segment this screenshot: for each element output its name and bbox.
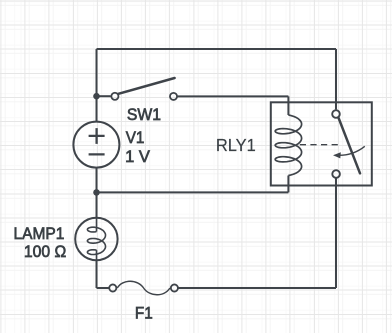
wire: relay contact top lead from top rail	[335, 49, 337, 109]
svg-text:V1: V1	[126, 129, 145, 147]
label V1 value 1 V	[125, 148, 150, 166]
wire: node B down to LAMP1 top	[96, 192, 98, 218]
relay RLY1 box	[271, 102, 372, 185]
wire: relay coil top lead (down into box)	[287, 96, 289, 115]
relay RLY1 contact terminals and lever	[332, 110, 360, 178]
wire: LAMP1 bottom lead to bottom rail	[96, 260, 98, 288]
wire: left rail vertical from top wire to node A	[96, 49, 98, 96]
wire: V1 bottom lead to node B	[96, 168, 98, 193]
svg-text:LAMP1: LAMP1	[14, 225, 65, 243]
wire: bottom rail left segment to fuse	[97, 287, 109, 289]
label LAMP1 value 100 ohm	[24, 243, 66, 261]
wire: relay coil bottom lead up into box	[287, 176, 289, 193]
label LAMP1	[14, 225, 65, 243]
wire: SW1 right terminal to relay coil top	[177, 95, 288, 97]
svg-text:F1: F1	[135, 304, 153, 322]
wire: node A down to V1 top	[96, 96, 98, 122]
relay RLY1 actuation dashed link	[300, 144, 341, 146]
label V1	[126, 129, 145, 147]
label F1	[135, 304, 153, 322]
label SW1	[127, 106, 161, 124]
wire: node A to SW1 left terminal	[97, 95, 111, 97]
label RLY1	[216, 135, 256, 155]
wire: top horizontal rail	[97, 48, 337, 50]
wire: bottom rail right segment from fuse to relay contact	[178, 287, 336, 289]
fuse F1	[109, 281, 178, 295]
voltage source V1	[73, 122, 119, 168]
svg-text:100 Ω: 100 Ω	[24, 243, 66, 261]
svg-text:1 V: 1 V	[125, 148, 150, 166]
switch SW1	[111, 78, 177, 100]
svg-text:RLY1: RLY1	[216, 135, 256, 155]
node A junction dot at SW1/V1	[93, 93, 100, 100]
relay RLY1 actuation arrow	[333, 146, 365, 158]
svg-text:SW1: SW1	[127, 106, 161, 124]
node B junction dot at V1/LAMP1	[93, 189, 100, 196]
relay RLY1 coil	[275, 115, 301, 176]
wire: relay contact bottom lead down to bottom rail	[335, 178, 337, 288]
wire: node B to relay coil bottom	[97, 191, 289, 193]
lamp LAMP1	[75, 218, 117, 260]
